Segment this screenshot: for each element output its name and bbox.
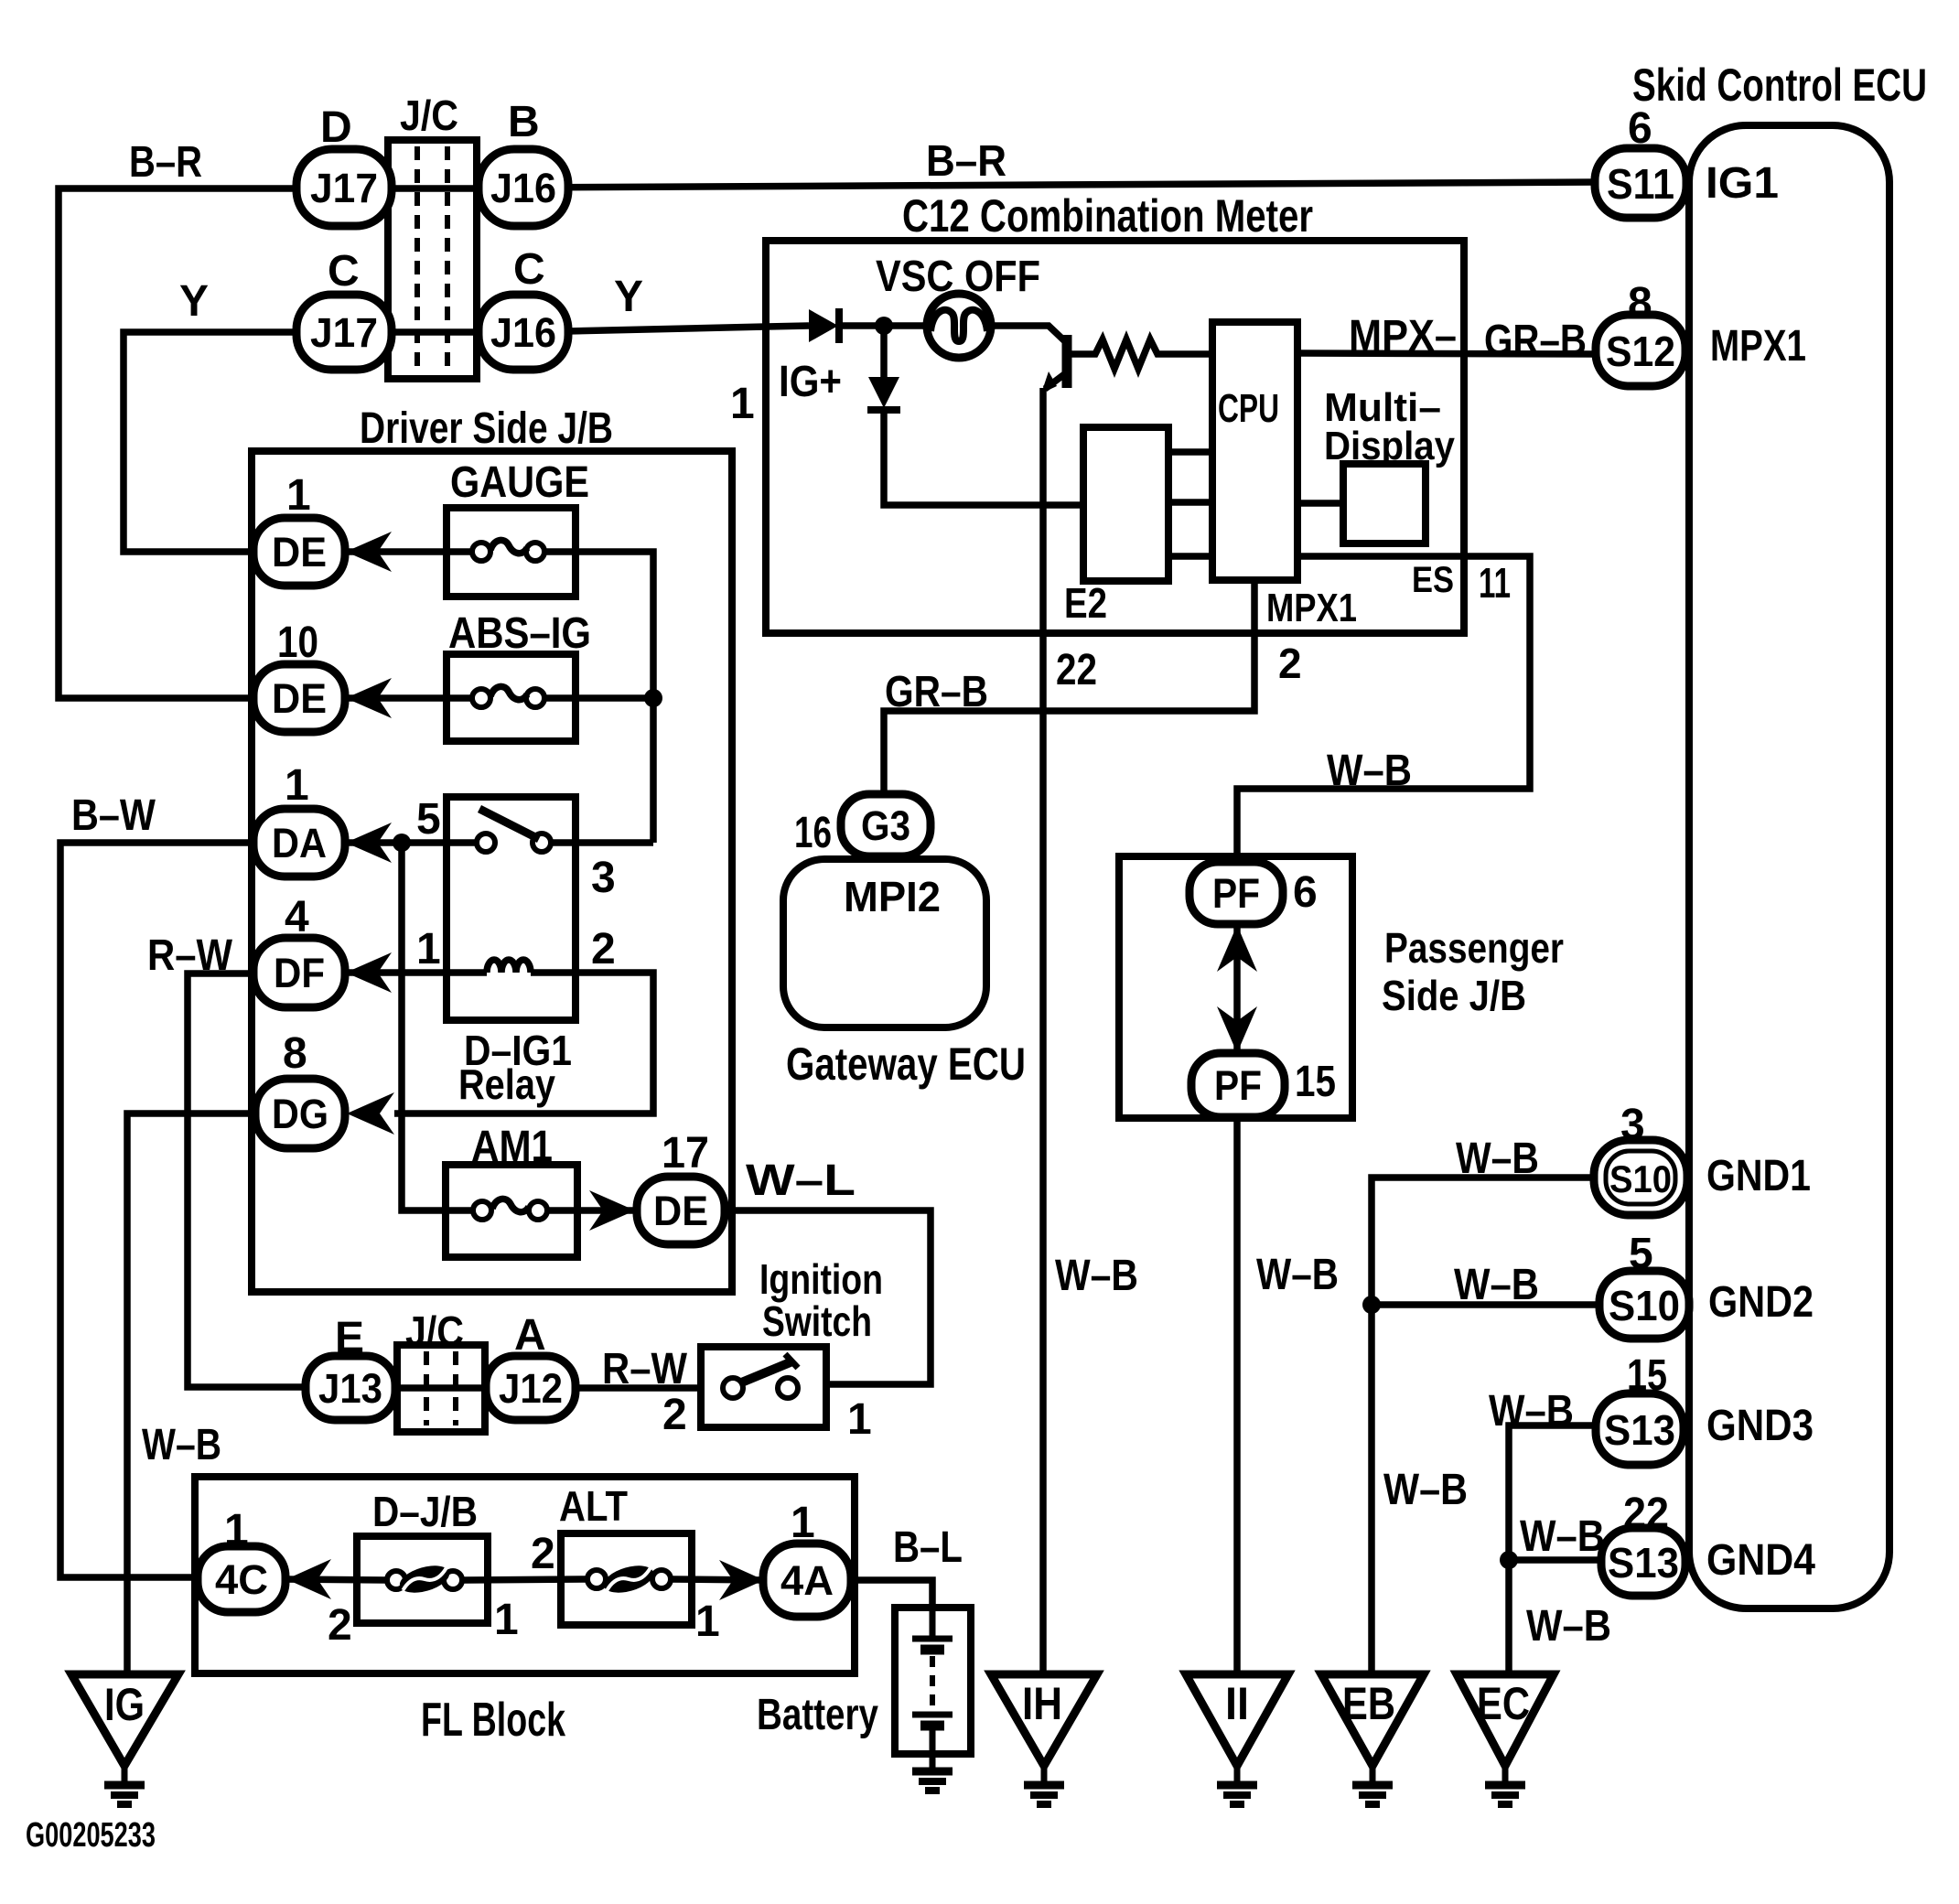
oval S10 GND1 bbox=[1594, 1140, 1687, 1215]
junction connector J/C bottom box bbox=[397, 1345, 485, 1432]
svg-text:DA: DA bbox=[272, 820, 327, 866]
svg-text:1: 1 bbox=[416, 925, 441, 974]
svg-text:1: 1 bbox=[791, 1499, 815, 1547]
svg-text:B–R: B–R bbox=[129, 138, 202, 187]
svg-text:II: II bbox=[1225, 1678, 1249, 1729]
svg-text:IG+: IG+ bbox=[779, 358, 842, 406]
svg-text:Driver Side J/B: Driver Side J/B bbox=[360, 404, 613, 453]
svg-text:W–B: W–B bbox=[1383, 1466, 1468, 1514]
svg-text:DG: DG bbox=[272, 1091, 328, 1137]
svg-text:3: 3 bbox=[591, 854, 616, 902]
oval J12 A bbox=[486, 1356, 576, 1420]
wire PF 15 down to II ground (W-B) bbox=[1233, 1116, 1241, 1676]
svg-text:G3: G3 bbox=[861, 802, 910, 849]
oval S10 GND2 bbox=[1599, 1271, 1689, 1339]
svg-text:VSC OFF: VSC OFF bbox=[876, 253, 1040, 301]
CPU box bbox=[1212, 322, 1297, 580]
svg-text:R–W: R–W bbox=[147, 931, 233, 980]
battery box bbox=[895, 1608, 971, 1754]
oval DE pin 10 bbox=[253, 664, 345, 732]
svg-text:W–B: W–B bbox=[1055, 1252, 1138, 1300]
oval PF 6 bbox=[1189, 862, 1283, 924]
svg-text:4A: 4A bbox=[780, 1557, 834, 1604]
D-J/B fusible link symbol bbox=[387, 1571, 405, 1589]
svg-text:17: 17 bbox=[662, 1129, 709, 1178]
svg-text:IG: IG bbox=[104, 1679, 145, 1730]
svg-text:PF: PF bbox=[1214, 1062, 1262, 1109]
svg-text:Battery: Battery bbox=[757, 1691, 878, 1739]
svg-text:R–W: R–W bbox=[602, 1345, 688, 1393]
svg-text:1: 1 bbox=[847, 1395, 872, 1444]
GAUGE fuse symbol bbox=[472, 543, 490, 561]
ground EC bbox=[1457, 1674, 1554, 1766]
svg-text:1: 1 bbox=[730, 380, 755, 428]
svg-text:4C: 4C bbox=[215, 1556, 268, 1603]
wire DA to relay contact 5 bbox=[347, 839, 477, 846]
wire 4C to D-J/B fusible link bbox=[284, 1579, 387, 1580]
svg-text:5: 5 bbox=[1629, 1230, 1653, 1278]
wire ES pin 11 to passenger side J/B (W-B) bbox=[1237, 556, 1530, 865]
ABS-IG fuse symbol bbox=[472, 689, 490, 707]
svg-text:GND2: GND2 bbox=[1708, 1278, 1814, 1327]
wire DE10 to ABS-IG fuse and junction bbox=[347, 694, 472, 702]
oval DE pin 17 bbox=[637, 1177, 725, 1244]
svg-text:2: 2 bbox=[1278, 640, 1302, 687]
arrow into DE1 bbox=[346, 532, 392, 572]
svg-text:DE: DE bbox=[272, 675, 327, 722]
svg-text:1: 1 bbox=[285, 761, 309, 810]
svg-text:DF: DF bbox=[274, 950, 325, 996]
svg-text:D–J/B: D–J/B bbox=[372, 1488, 478, 1535]
D-J/B fusible link box bbox=[357, 1536, 488, 1623]
svg-text:W–L: W–L bbox=[746, 1156, 856, 1205]
svg-text:G00205233: G00205233 bbox=[26, 1816, 156, 1855]
oval S11 bbox=[1595, 148, 1686, 218]
arrow into DG bbox=[347, 1092, 394, 1135]
wire zener branch down to E2 bbox=[880, 326, 888, 377]
svg-text:Gateway ECU: Gateway ECU bbox=[786, 1038, 1026, 1090]
wire DE1 to GAUGE fuse and junction bbox=[347, 548, 472, 555]
wire E2 to CPU line 2 bbox=[1168, 499, 1212, 506]
svg-text:J17: J17 bbox=[310, 165, 378, 211]
svg-text:GR–B: GR–B bbox=[885, 668, 988, 716]
wire DA junction down to AM1 fuse bbox=[402, 843, 473, 1210]
multi-display box bbox=[1343, 464, 1426, 543]
svg-text:C12 Combination Meter: C12 Combination Meter bbox=[902, 190, 1313, 242]
svg-text:A: A bbox=[514, 1311, 546, 1360]
wire through J/C top row 2 bbox=[388, 328, 477, 336]
wire CPU to multi-display bbox=[1297, 500, 1343, 507]
svg-text:16: 16 bbox=[794, 809, 832, 857]
oval J17 C bbox=[296, 295, 392, 370]
ignition switch contact 1 bbox=[778, 1378, 798, 1398]
arrow into DF bbox=[346, 952, 392, 993]
svg-text:11: 11 bbox=[1479, 559, 1511, 607]
FL block box bbox=[195, 1477, 855, 1673]
svg-text:Ignition: Ignition bbox=[759, 1255, 883, 1303]
svg-text:S10: S10 bbox=[1609, 1157, 1672, 1200]
wire Y from J17 C down left side to DE pin 1 bbox=[124, 332, 527, 552]
svg-text:Relay: Relay bbox=[458, 1060, 555, 1108]
svg-text:MPX1: MPX1 bbox=[1710, 322, 1806, 371]
svg-text:J16: J16 bbox=[490, 309, 556, 356]
svg-text:W–B: W–B bbox=[1454, 1261, 1539, 1309]
svg-text:IG1: IG1 bbox=[1706, 159, 1779, 208]
arrow down to PF15 bbox=[1217, 1006, 1257, 1053]
wire B-R from J16 B to S11 bbox=[512, 182, 1597, 188]
svg-text:J/C: J/C bbox=[400, 91, 458, 139]
wire Y from J16 C to combination meter pin 1 bbox=[527, 326, 809, 332]
wire E2 to CPU line 1 bbox=[1168, 448, 1212, 456]
svg-text:GND4: GND4 bbox=[1706, 1536, 1815, 1585]
arrow up to PF6 bbox=[1217, 925, 1257, 972]
resistor between transistor base and CPU bbox=[1071, 339, 1212, 369]
svg-text:J16: J16 bbox=[490, 165, 556, 211]
svg-text:C: C bbox=[328, 247, 360, 296]
svg-text:EB: EB bbox=[1342, 1678, 1395, 1729]
relay switch blade bbox=[479, 809, 539, 839]
svg-text:15: 15 bbox=[1295, 1058, 1336, 1106]
ignition switch box bbox=[701, 1347, 826, 1427]
svg-text:S12: S12 bbox=[1606, 328, 1675, 375]
svg-text:Side J/B: Side J/B bbox=[1382, 972, 1526, 1019]
wire ALT to 4A bbox=[671, 1579, 765, 1580]
wire emitter down through pin 22 to IH ground bbox=[1045, 372, 1067, 389]
junction dot GND2 node bbox=[1362, 1296, 1381, 1314]
diode IG+ bbox=[809, 309, 838, 342]
wire relay coil pin 2 down to DG bbox=[394, 973, 653, 1113]
wire GND4 S13 to EC ground (W-B) bbox=[1509, 1560, 1603, 1676]
svg-text:ABS–IG: ABS–IG bbox=[448, 609, 591, 658]
svg-text:W–B: W–B bbox=[1256, 1251, 1339, 1299]
wire GND2 S10 (W-B) bbox=[1372, 1301, 1601, 1308]
wire B-L from 4A to battery bbox=[849, 1580, 932, 1610]
relay switch contact 5 bbox=[477, 834, 495, 852]
svg-text:W–B: W–B bbox=[1520, 1512, 1605, 1561]
svg-text:Display: Display bbox=[1324, 424, 1455, 468]
wire through J/C top row 1 bbox=[388, 185, 477, 192]
AM1 fuse box bbox=[446, 1165, 577, 1257]
skid control ECU box bbox=[1689, 125, 1889, 1608]
wire D-J/B to ALT fusible link bbox=[462, 1579, 587, 1580]
svg-text:MPX–: MPX– bbox=[1349, 312, 1457, 360]
svg-text:22: 22 bbox=[1056, 646, 1097, 694]
wire B-R from J17 D down left side to DE pin 10 bbox=[59, 188, 512, 698]
svg-text:DE: DE bbox=[272, 529, 327, 576]
svg-text:IH: IH bbox=[1022, 1678, 1062, 1729]
svg-text:Skid Control ECU: Skid Control ECU bbox=[1632, 59, 1927, 111]
ground EB bbox=[1321, 1674, 1424, 1766]
svg-text:6: 6 bbox=[1628, 104, 1652, 153]
oval PF 15 bbox=[1191, 1053, 1285, 1117]
svg-text:FL Block: FL Block bbox=[421, 1694, 565, 1747]
wire relay contact 3 to fuse junction bbox=[551, 839, 653, 846]
wire E2 to CPU line 3 bbox=[1168, 553, 1212, 560]
oval J16 B bbox=[479, 149, 568, 226]
arrow into DA bbox=[346, 823, 392, 863]
battery cells bbox=[930, 1608, 936, 1638]
oval G3 bbox=[841, 794, 931, 856]
wire MPX1 pin 2 to gateway ECU G3 (GR-B) bbox=[884, 580, 1254, 797]
zener diode bbox=[868, 377, 899, 408]
relay switch contact 3 bbox=[533, 834, 551, 852]
junction dot DA node bbox=[393, 834, 411, 852]
oval J17 D bbox=[296, 149, 392, 226]
svg-text:W–B: W–B bbox=[142, 1421, 221, 1469]
oval DG pin 8 bbox=[255, 1079, 345, 1148]
oval DF pin 4 bbox=[253, 938, 345, 1007]
svg-text:ALT: ALT bbox=[559, 1482, 628, 1530]
gateway ECU box bbox=[783, 859, 986, 1027]
svg-text:Switch: Switch bbox=[762, 1297, 872, 1345]
driver side J/B box bbox=[252, 451, 732, 1292]
wire through J/C bottom bbox=[397, 1384, 485, 1392]
svg-text:B–W: B–W bbox=[71, 791, 156, 840]
wire meter internal from diode to lamp bbox=[838, 322, 927, 329]
ground IH bbox=[991, 1674, 1097, 1766]
oval S13 GND3 bbox=[1596, 1393, 1684, 1465]
svg-text:MPX1: MPX1 bbox=[1266, 586, 1357, 630]
wire collector lamp to transistor bbox=[991, 326, 1067, 343]
AM1 fuse symbol bbox=[473, 1201, 491, 1220]
svg-text:W–B: W–B bbox=[1489, 1387, 1574, 1436]
svg-text:22: 22 bbox=[1623, 1490, 1669, 1538]
svg-text:B–L: B–L bbox=[893, 1523, 963, 1572]
svg-text:2: 2 bbox=[591, 925, 616, 974]
battery ground bbox=[912, 1768, 953, 1776]
oval 4C bbox=[198, 1546, 285, 1612]
transistor emitter arrowhead bbox=[1041, 371, 1057, 393]
svg-text:S10: S10 bbox=[1609, 1282, 1680, 1329]
ignition switch contact 2 bbox=[723, 1378, 743, 1398]
svg-text:C: C bbox=[513, 245, 545, 294]
svg-text:2: 2 bbox=[531, 1530, 555, 1578]
wire B-W from DA pin 1 down left side to 4C bbox=[60, 843, 302, 1577]
svg-text:J/C: J/C bbox=[405, 1307, 464, 1355]
svg-text:CPU: CPU bbox=[1218, 386, 1279, 431]
oval S13 GND4 bbox=[1601, 1528, 1685, 1596]
svg-text:1: 1 bbox=[494, 1596, 519, 1644]
wire R-W from DF pin 4 down to J13 bbox=[188, 974, 352, 1387]
svg-text:B: B bbox=[508, 98, 540, 146]
wire R-W J12 to ignition switch pin 2 bbox=[572, 1384, 701, 1392]
arrow into 4A bbox=[719, 1560, 764, 1600]
wire GND3 S13 (W-B) bbox=[1509, 1425, 1598, 1560]
svg-text:5: 5 bbox=[416, 795, 441, 844]
svg-text:GND3: GND3 bbox=[1706, 1402, 1814, 1450]
wire MPX- / GR-B from CPU to S12 bbox=[1297, 353, 1597, 354]
svg-text:J12: J12 bbox=[499, 1365, 563, 1412]
svg-text:10: 10 bbox=[277, 619, 318, 667]
oval J13 E bbox=[306, 1356, 395, 1420]
svg-text:Y: Y bbox=[179, 277, 209, 326]
svg-text:Y: Y bbox=[614, 273, 643, 321]
svg-text:PF: PF bbox=[1212, 870, 1260, 917]
svg-text:B–R: B–R bbox=[926, 137, 1006, 186]
wire W-L from DE17 to ignition switch pin 1 bbox=[723, 1210, 931, 1384]
svg-text:E2: E2 bbox=[1064, 579, 1107, 627]
svg-text:EC: EC bbox=[1477, 1678, 1530, 1729]
svg-text:S13: S13 bbox=[1608, 1539, 1679, 1587]
svg-text:W–B: W–B bbox=[1456, 1135, 1539, 1183]
svg-text:3: 3 bbox=[1620, 1101, 1645, 1149]
svg-text:D: D bbox=[320, 103, 352, 152]
arrow into DE10 bbox=[346, 678, 392, 718]
svg-text:4: 4 bbox=[285, 893, 309, 941]
combination meter box C12 bbox=[766, 241, 1464, 633]
svg-text:15: 15 bbox=[1627, 1351, 1667, 1400]
svg-text:MPI2: MPI2 bbox=[844, 873, 941, 920]
GAUGE fuse box bbox=[447, 508, 576, 597]
junction dot GND4 node bbox=[1500, 1551, 1518, 1569]
svg-text:GR–B: GR–B bbox=[1484, 317, 1587, 365]
svg-text:2: 2 bbox=[662, 1391, 687, 1439]
svg-text:W–B: W–B bbox=[1327, 747, 1412, 795]
D-IG1 relay box bbox=[447, 797, 576, 1020]
svg-text:AM1: AM1 bbox=[471, 1123, 553, 1171]
wire DF to relay coil pin 1 bbox=[347, 969, 487, 976]
junction dot IG+ node bbox=[875, 317, 893, 335]
ABS-IG fuse box bbox=[447, 654, 576, 741]
svg-text:1: 1 bbox=[286, 471, 311, 520]
transistor Q1 base bar bbox=[1062, 335, 1072, 388]
svg-text:1: 1 bbox=[224, 1506, 249, 1554]
svg-text:6: 6 bbox=[1293, 868, 1318, 917]
svg-text:8: 8 bbox=[1628, 279, 1652, 328]
svg-text:Passenger: Passenger bbox=[1384, 924, 1564, 972]
relay coil bbox=[487, 960, 531, 973]
svg-text:DE: DE bbox=[653, 1188, 708, 1234]
ALT fusible link symbol bbox=[587, 1570, 606, 1588]
E2 box inside meter bbox=[1083, 427, 1168, 581]
ignition switch blade bbox=[739, 1361, 792, 1383]
oval S12 bbox=[1596, 315, 1685, 386]
junction connector J/C top box bbox=[388, 140, 477, 379]
arrow into DE17 bbox=[589, 1190, 635, 1231]
svg-text:J17: J17 bbox=[310, 309, 378, 356]
wire AM1 fuse to DE17 bbox=[547, 1207, 640, 1214]
svg-text:ES: ES bbox=[1412, 560, 1454, 600]
VSC OFF lamp bbox=[927, 294, 991, 358]
svg-text:J13: J13 bbox=[318, 1365, 382, 1412]
ground IG bbox=[71, 1674, 178, 1766]
svg-text:8: 8 bbox=[283, 1029, 307, 1078]
arrow into 4C bbox=[286, 1559, 331, 1599]
wire PF6 to PF15 internal bbox=[1233, 924, 1241, 1053]
oval J16 C bbox=[479, 295, 568, 370]
svg-text:W–B: W–B bbox=[1526, 1602, 1611, 1651]
wire GND1 S10 to EB ground (W-B) bbox=[1372, 1178, 1598, 1676]
svg-text:GND1: GND1 bbox=[1706, 1152, 1811, 1200]
svg-text:GAUGE: GAUGE bbox=[450, 458, 589, 507]
svg-text:2: 2 bbox=[328, 1601, 352, 1650]
oval 4A bbox=[763, 1544, 851, 1617]
ALT fusible link box bbox=[561, 1533, 692, 1625]
svg-text:1: 1 bbox=[695, 1597, 720, 1646]
svg-text:S13: S13 bbox=[1604, 1406, 1675, 1454]
oval DE pin 1 bbox=[253, 518, 345, 586]
ground II bbox=[1186, 1674, 1288, 1766]
passenger side J/B box bbox=[1119, 856, 1352, 1118]
svg-text:S11: S11 bbox=[1607, 160, 1674, 208]
svg-text:E: E bbox=[335, 1314, 364, 1362]
wire W-B from DG pin 8 down to IG ground bbox=[127, 1113, 302, 1676]
junction dot fuse node bbox=[644, 689, 662, 707]
oval DA pin 1 bbox=[253, 809, 345, 877]
